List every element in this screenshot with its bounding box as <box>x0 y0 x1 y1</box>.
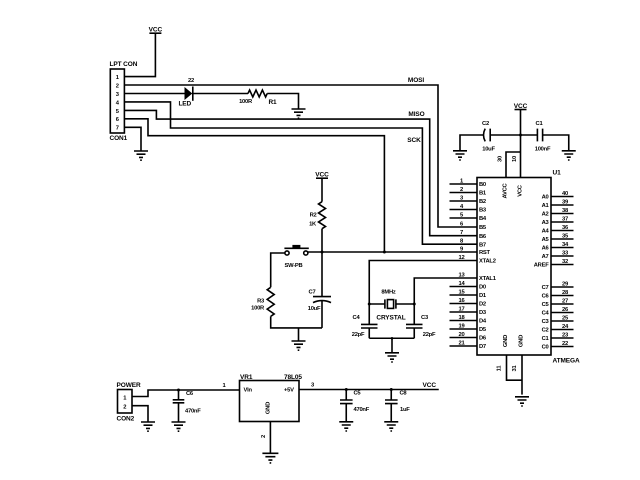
wire VCC rail right <box>543 135 569 151</box>
svg-text:21: 21 <box>459 340 466 346</box>
wire pin7 to ground <box>124 127 141 151</box>
svg-text:VCC: VCC <box>149 27 163 34</box>
ground (CON1 pin7) <box>134 151 148 160</box>
pin 3 B2 (left) <box>450 200 478 202</box>
pin 35 A5 (right) <box>551 238 574 240</box>
svg-text:C2: C2 <box>482 121 489 127</box>
svg-text:C0: C0 <box>542 345 549 351</box>
svg-text:22pF: 22pF <box>423 332 436 338</box>
junction (C8 tap) <box>390 388 393 391</box>
pin 34 A6 (right) <box>551 247 574 249</box>
svg-text:31: 31 <box>512 365 518 372</box>
svg-text:A2: A2 <box>542 212 549 218</box>
resistor R1 100R <box>248 90 267 97</box>
pin 27 C5 (right) <box>551 303 574 305</box>
junction (pin6 wire to RST line) <box>383 251 386 254</box>
svg-text:D7: D7 <box>479 344 486 350</box>
svg-text:R3: R3 <box>257 299 265 305</box>
svg-text:34: 34 <box>562 242 569 248</box>
capacitor C6 470nF <box>173 390 185 422</box>
wire XTAL2 run <box>369 261 477 305</box>
pin 16 D2 (left) <box>450 303 478 305</box>
pin 38 A2 (right) <box>551 213 574 215</box>
ground (U1 GND pins) <box>515 397 529 406</box>
svg-text:10: 10 <box>512 156 518 162</box>
svg-text:B3: B3 <box>479 208 487 214</box>
wire crystal bottom rail <box>369 337 414 339</box>
svg-text:AVCC: AVCC <box>503 182 509 198</box>
pin 39 A1 (right) <box>551 204 574 206</box>
svg-text:B1: B1 <box>479 191 487 197</box>
svg-text:28: 28 <box>562 290 569 296</box>
svg-text:SW-PB: SW-PB <box>285 263 303 269</box>
connector CON1 (LPT CON) box <box>110 69 124 133</box>
pin 23 C1 (right) <box>551 337 574 339</box>
svg-text:14: 14 <box>459 281 466 287</box>
svg-text:39: 39 <box>562 199 569 205</box>
svg-text:B6: B6 <box>479 234 487 240</box>
svg-text:C5: C5 <box>354 391 362 397</box>
svg-text:GND: GND <box>519 335 525 347</box>
svg-text:AREF: AREF <box>534 263 549 269</box>
pin 33 A7 (right) <box>551 255 574 257</box>
wire pin5 MISO run <box>124 110 477 235</box>
wire pin6 to RST <box>124 119 384 252</box>
svg-text:10uF: 10uF <box>308 306 321 312</box>
svg-text:22: 22 <box>188 78 194 84</box>
svg-text:7: 7 <box>460 230 463 236</box>
svg-text:C4: C4 <box>542 311 550 317</box>
LED D2 <box>185 87 193 100</box>
svg-text:B0: B0 <box>479 182 486 188</box>
svg-text:C4: C4 <box>353 315 361 321</box>
wire R1 to ground <box>267 94 298 109</box>
capacitor C5 470nF <box>340 390 353 422</box>
capacitor C7 10uF <box>313 297 331 303</box>
svg-text:A3: A3 <box>542 220 550 226</box>
svg-text:22pF: 22pF <box>352 332 365 338</box>
svg-text:C3: C3 <box>421 315 429 321</box>
svg-text:C8: C8 <box>400 391 408 397</box>
svg-text:7: 7 <box>116 126 119 132</box>
svg-text:CON2: CON2 <box>117 416 135 423</box>
ground (crystal) <box>385 353 399 362</box>
svg-text:37: 37 <box>562 216 568 222</box>
junction (VCC rail) <box>519 134 522 137</box>
svg-text:40: 40 <box>562 191 568 197</box>
svg-text:29: 29 <box>562 281 569 287</box>
capacitor C3 22pF <box>406 304 423 338</box>
junction (C6 tap) <box>177 389 180 392</box>
svg-text:R2: R2 <box>310 212 317 218</box>
pin 2 wire (VR1 ground) <box>269 422 271 454</box>
svg-text:R1: R1 <box>268 99 277 106</box>
resistor R3 100R <box>267 287 274 316</box>
wire reset bottom rail <box>271 316 322 328</box>
pin 26 C4 (right) <box>551 312 574 314</box>
svg-text:15: 15 <box>459 289 466 295</box>
wire pin4 SCK run <box>124 102 477 244</box>
pin 21 D7 (left) <box>450 345 478 347</box>
connector CON2 POWER box <box>118 390 133 414</box>
svg-text:C7: C7 <box>542 285 549 291</box>
pin 18 D4 (left) <box>450 320 478 322</box>
crystal Y1 8MHz <box>369 299 414 308</box>
pin 20 D6 (left) <box>450 337 478 339</box>
op-amp U1 ATMEGA box <box>477 178 551 356</box>
svg-text:19: 19 <box>459 323 466 329</box>
ground (C5) <box>339 422 353 431</box>
wire VCC to R2 <box>321 178 323 202</box>
svg-text:2: 2 <box>123 405 126 411</box>
svg-text:A4: A4 <box>542 229 550 235</box>
wire pin3 to LED <box>124 93 184 95</box>
junction (crystal right node) <box>413 303 416 306</box>
pin 14 D0 (left) <box>450 286 478 288</box>
pin 19 D5 (left) <box>450 328 478 330</box>
pin 24 C2 (right) <box>551 329 574 331</box>
ground (VR1) <box>262 453 278 463</box>
svg-text:2: 2 <box>261 435 267 438</box>
svg-text:100nF: 100nF <box>535 146 551 152</box>
wire switch to R3 <box>271 253 285 287</box>
pin 28 C6 (right) <box>551 295 574 297</box>
pin 36 A4 (right) <box>551 230 574 232</box>
svg-text:B4: B4 <box>479 216 487 222</box>
svg-text:D3: D3 <box>479 310 487 316</box>
svg-text:1K: 1K <box>309 221 317 227</box>
svg-text:A1: A1 <box>542 203 550 209</box>
switch SW-PB <box>285 251 289 255</box>
svg-text:10uF: 10uF <box>482 146 495 152</box>
pin 32 AREF (right) <box>551 264 574 266</box>
svg-text:35: 35 <box>562 233 569 239</box>
svg-text:MISO: MISO <box>408 111 424 118</box>
svg-text:100R: 100R <box>251 306 265 312</box>
power VCC symbol (top-left) <box>149 32 161 34</box>
junction (C5 tap) <box>345 388 348 391</box>
wire CON2 pin1 to regulator input <box>132 390 240 397</box>
resistor R2 1K <box>319 202 326 229</box>
svg-text:A5: A5 <box>542 237 550 243</box>
svg-text:A6: A6 <box>542 246 550 252</box>
svg-text:18: 18 <box>459 315 466 321</box>
svg-text:VR1: VR1 <box>240 374 253 381</box>
pin 40 A0 (right) <box>551 196 574 198</box>
pin 15 D1 (left) <box>450 294 478 296</box>
svg-text:VCC: VCC <box>423 382 437 389</box>
svg-text:XTAL1: XTAL1 <box>479 276 497 282</box>
svg-text:24: 24 <box>562 324 569 330</box>
wire pin2 MOSI run <box>124 85 477 227</box>
ground (rail right) <box>562 151 576 160</box>
capacitor C4 22pF <box>361 304 378 338</box>
svg-text:C6: C6 <box>186 391 194 397</box>
svg-text:+5V: +5V <box>284 388 294 394</box>
pin 1 B0 (left) <box>450 183 478 185</box>
pin 37 A3 (right) <box>551 221 574 223</box>
svg-text:38: 38 <box>562 208 569 214</box>
svg-text:MOSI: MOSI <box>408 77 425 84</box>
svg-text:17: 17 <box>459 306 465 312</box>
svg-text:C7: C7 <box>309 290 316 296</box>
svg-text:8MHz: 8MHz <box>381 290 395 296</box>
svg-text:13: 13 <box>459 272 466 278</box>
svg-text:SCK: SCK <box>407 137 421 144</box>
svg-text:C2: C2 <box>542 328 549 334</box>
svg-text:C3: C3 <box>542 319 550 325</box>
pin 22 C0 (right) <box>551 346 574 348</box>
svg-text:XTAL2: XTAL2 <box>479 259 496 265</box>
svg-text:33: 33 <box>562 250 569 256</box>
wire CON2 pin2 to ground <box>132 406 148 422</box>
svg-text:470nF: 470nF <box>185 409 201 415</box>
capacitor C8 1uF <box>385 390 398 422</box>
svg-text:LED: LED <box>178 100 191 107</box>
svg-text:470nF: 470nF <box>354 407 370 413</box>
svg-text:ATMEGA: ATMEGA <box>553 358 580 365</box>
ground (reset circuit) <box>292 341 306 350</box>
svg-text:78L05: 78L05 <box>284 374 302 381</box>
svg-text:C6: C6 <box>542 294 550 300</box>
svg-text:100R: 100R <box>239 99 253 105</box>
svg-text:LPT CON: LPT CON <box>110 61 138 68</box>
svg-text:C1: C1 <box>542 336 550 342</box>
pin 11 GND (bottom) <box>507 355 523 380</box>
svg-text:27: 27 <box>562 298 568 304</box>
svg-text:U1: U1 <box>553 170 562 177</box>
wire XTAL1 run <box>414 278 477 304</box>
pin 29 C7 (right) <box>551 286 574 288</box>
pin 4 B3 (left) <box>450 209 478 211</box>
wire rail to ground <box>391 338 393 352</box>
wire LED to R1 <box>193 93 248 95</box>
ground (R1) <box>292 109 306 118</box>
svg-text:23: 23 <box>562 332 569 338</box>
svg-text:26: 26 <box>562 307 569 313</box>
junction (crystal rail to ground) <box>391 337 394 340</box>
svg-text:12: 12 <box>459 255 465 261</box>
pin 2 B1 (left) <box>450 192 478 194</box>
svg-text:POWER: POWER <box>117 382 141 389</box>
svg-text:1uF: 1uF <box>400 407 410 413</box>
svg-text:D1: D1 <box>479 293 487 299</box>
ground (CON2) <box>141 422 155 431</box>
svg-text:25: 25 <box>562 315 569 321</box>
regulator VR1 78L05 box <box>240 381 300 422</box>
svg-text:A0: A0 <box>542 195 549 201</box>
wire VR1 output rail <box>299 389 439 391</box>
pin AVCC (30) <box>506 152 521 178</box>
svg-text:2: 2 <box>460 187 463 193</box>
capacitor C1 100nF <box>537 129 542 142</box>
svg-text:32: 32 <box>562 259 568 265</box>
svg-text:D4: D4 <box>479 319 487 325</box>
svg-text:30: 30 <box>498 156 504 162</box>
svg-text:2: 2 <box>116 83 119 89</box>
svg-text:B5: B5 <box>479 225 487 231</box>
svg-text:22: 22 <box>562 341 568 347</box>
svg-text:D5: D5 <box>479 327 487 333</box>
ground (C8) <box>384 422 398 431</box>
svg-text:VCC: VCC <box>518 184 524 197</box>
ground (rail left) <box>453 151 467 160</box>
svg-text:RST: RST <box>479 250 491 256</box>
wire rail to ground <box>298 328 300 341</box>
svg-text:D6: D6 <box>479 336 487 342</box>
ground (C6) <box>172 422 186 431</box>
svg-text:CON1: CON1 <box>110 135 128 142</box>
svg-text:VIn: VIn <box>244 388 253 394</box>
svg-text:C1: C1 <box>536 121 544 127</box>
pin 31 GND (bottom) <box>521 355 523 395</box>
pin 25 C3 (right) <box>551 320 574 322</box>
svg-text:GND: GND <box>266 402 272 414</box>
svg-text:D0: D0 <box>479 285 486 291</box>
pin 17 D3 (left) <box>450 311 478 313</box>
svg-text:B2: B2 <box>479 199 486 205</box>
svg-text:20: 20 <box>459 332 465 338</box>
svg-text:D2: D2 <box>479 302 486 308</box>
junction (R2/C7 on RST line) <box>321 251 324 254</box>
svg-text:C5: C5 <box>542 302 550 308</box>
pin 5 B4 (left) <box>450 217 478 219</box>
wire pin1 to VCC <box>124 33 155 76</box>
wire RST line to U1 pin 9 <box>308 251 477 253</box>
svg-text:B7: B7 <box>479 242 486 248</box>
wire R2 to C7 <box>321 229 323 297</box>
wire between C2 and VCC node <box>490 134 537 136</box>
svg-text:A7: A7 <box>542 254 549 260</box>
wire VCC rail left <box>460 135 484 151</box>
junction (crystal left node) <box>368 303 371 306</box>
svg-text:16: 16 <box>459 298 466 304</box>
svg-text:36: 36 <box>562 225 569 231</box>
capacitor C2 10uF <box>484 129 491 142</box>
svg-text:CRYSTAL: CRYSTAL <box>376 314 405 321</box>
svg-text:GND: GND <box>503 335 509 347</box>
